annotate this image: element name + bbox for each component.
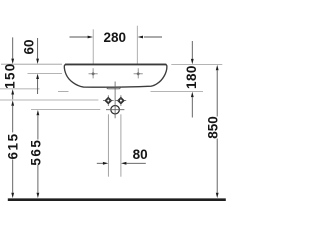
wire: stub line left of basin bottom bbox=[58, 90, 69, 92]
dimension 850 bbox=[205, 65, 220, 198]
washbasin body outline bbox=[64, 64, 167, 87]
wire: extension line at tap-hole level bbox=[28, 72, 63, 74]
basin rim top edge (heavier) bbox=[65, 64, 166, 66]
drain centerline vertical bbox=[114, 82, 116, 119]
fixing hole symbol right bbox=[116, 95, 127, 106]
wire: right bottom extension line bbox=[151, 91, 204, 93]
dimension 280 bbox=[70, 30, 163, 45]
waste pipe line right bbox=[120, 114, 122, 176]
svg-text:60: 60 bbox=[22, 39, 37, 54]
dimension 565 bbox=[29, 110, 44, 198]
wire: extension line drain level bbox=[31, 109, 100, 111]
wire: extension line fixing-hole level bbox=[0, 99, 98, 101]
svg-text:80: 80 bbox=[133, 147, 148, 162]
dimension 615 bbox=[5, 100, 20, 198]
wire: 280 right extension line bbox=[136, 26, 138, 64]
svg-text:280: 280 bbox=[104, 30, 127, 45]
dimension 80 bbox=[97, 147, 148, 165]
svg-text:150: 150 bbox=[3, 62, 18, 88]
wire: left extension line at rim level bbox=[1, 63, 62, 65]
wire: right top extension line bbox=[171, 63, 222, 65]
svg-text:850: 850 bbox=[205, 116, 220, 139]
tap hole cross left bbox=[89, 68, 98, 78]
tap hole cross right bbox=[134, 68, 143, 78]
drain outlet circle bbox=[111, 105, 120, 114]
fixing hole symbol left bbox=[103, 95, 114, 106]
siphon recess notch bbox=[106, 87, 122, 89]
dimension 60 bbox=[22, 38, 40, 94]
svg-text:565: 565 bbox=[29, 139, 44, 166]
drain crosshair horizontal bbox=[106, 109, 124, 111]
svg-text:180: 180 bbox=[184, 65, 199, 89]
dimension 150 bbox=[3, 37, 18, 99]
dimension 180 bbox=[184, 41, 199, 118]
wire: 280 left extension line bbox=[92, 29, 94, 64]
floor line bbox=[8, 198, 226, 201]
svg-text:615: 615 bbox=[5, 132, 20, 159]
waste pipe line left bbox=[107, 114, 109, 176]
wire: extension line 150 bottom bbox=[0, 88, 40, 90]
